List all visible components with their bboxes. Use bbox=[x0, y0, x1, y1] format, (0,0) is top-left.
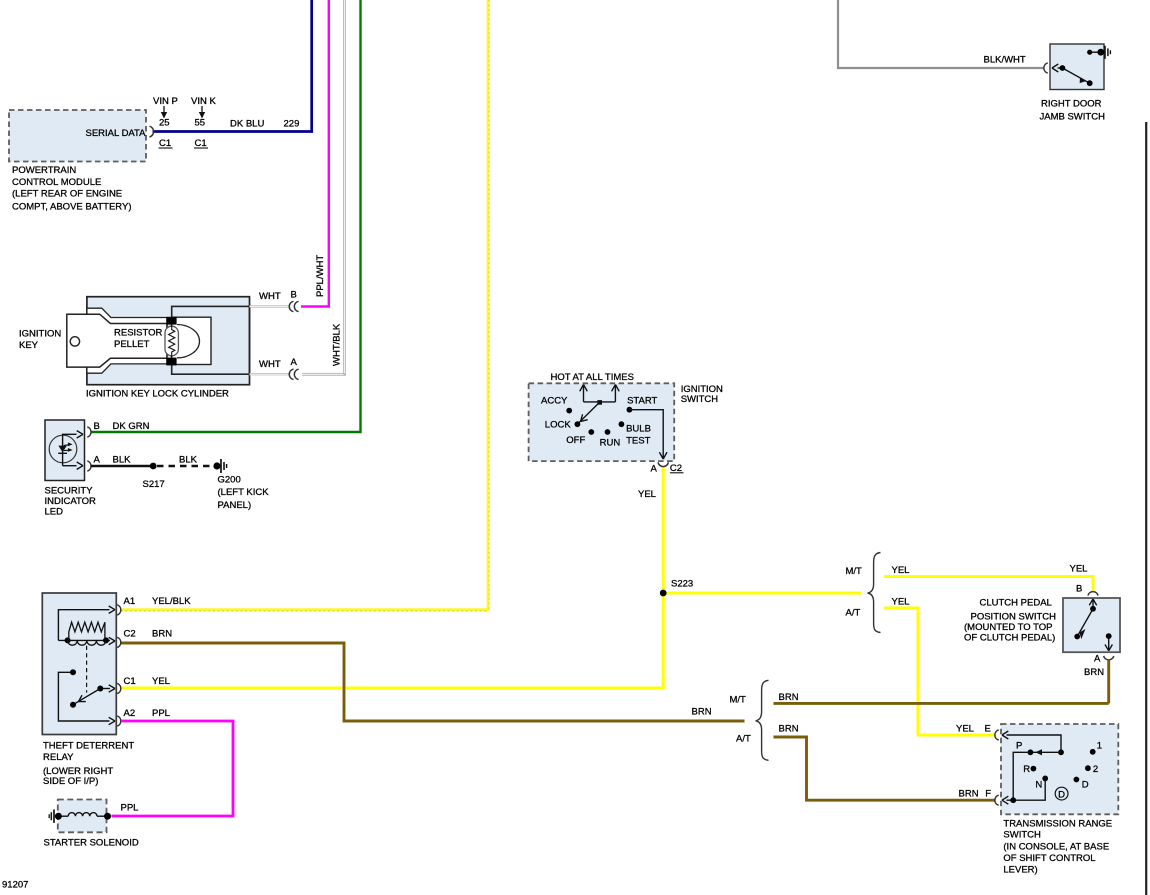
svg-text:N: N bbox=[1035, 779, 1042, 790]
label A/T yel bbox=[846, 608, 861, 619]
label YEL clutch bbox=[1070, 564, 1088, 575]
label PPL solenoid bbox=[121, 803, 139, 814]
wire BRN M/T clutch branch bbox=[774, 702, 1109, 705]
connector clutch B bbox=[1088, 592, 1098, 596]
label G200 bbox=[218, 475, 270, 512]
wire BRN A/T to trans F bbox=[774, 737, 996, 800]
label DK GRN bbox=[113, 421, 150, 432]
contact ACCY bbox=[541, 395, 572, 413]
svg-text:PANEL): PANEL) bbox=[218, 500, 252, 511]
label PPL/WHT rotated bbox=[315, 255, 326, 297]
label BRN m/t branch bbox=[779, 692, 799, 703]
ignition switch box bbox=[529, 383, 675, 461]
svg-text:BRN: BRN bbox=[152, 629, 172, 640]
pin 25 bbox=[159, 118, 170, 129]
svg-text:RIGHT DOOR: RIGHT DOOR bbox=[1041, 99, 1102, 110]
connector relay A1 bbox=[117, 605, 121, 615]
label HOT AT ALL TIMES bbox=[551, 372, 634, 383]
connector security B bbox=[87, 427, 91, 437]
label BRN at brace bbox=[692, 707, 712, 718]
svg-text:A: A bbox=[1094, 654, 1101, 665]
connector (( upper bbox=[289, 301, 298, 311]
connector relay C2 bbox=[117, 637, 121, 647]
contact 1 bbox=[1090, 740, 1102, 754]
relay C1 contact line bbox=[97, 685, 115, 692]
svg-text:(LEFT KICK: (LEFT KICK bbox=[218, 487, 270, 498]
svg-text:YEL: YEL bbox=[892, 565, 910, 576]
solenoid coil bbox=[55, 813, 111, 820]
relay A1 internal line bbox=[58, 606, 115, 640]
label BRN trans F bbox=[959, 789, 979, 800]
label YEL/BLK bbox=[152, 596, 191, 607]
svg-text:E: E bbox=[985, 724, 991, 735]
connector trans F bbox=[995, 795, 999, 805]
pin B clutch bbox=[1076, 584, 1082, 595]
label PPL relay bbox=[152, 708, 170, 719]
wire BRN relay C2 to brace bbox=[121, 643, 745, 721]
page number 91207 bbox=[2, 880, 28, 891]
contact BULB TEST bbox=[619, 421, 651, 446]
svg-text:2: 2 bbox=[1093, 764, 1098, 775]
LED circle bbox=[49, 435, 77, 463]
label SERIAL DATA bbox=[85, 128, 146, 139]
ground starter solenoid bbox=[49, 810, 54, 823]
wire YEL/BLK relay A1 bbox=[121, 0, 489, 611]
svg-text:A: A bbox=[291, 357, 298, 368]
pin E bbox=[985, 724, 991, 735]
wire PPL/WHT bbox=[301, 0, 329, 307]
contact D circled bbox=[1055, 787, 1068, 800]
svg-text:C1: C1 bbox=[124, 676, 136, 687]
connector C1 left bbox=[159, 138, 173, 149]
feed arrows to hot bbox=[580, 385, 620, 405]
svg-text:POSITION SWITCH: POSITION SWITCH bbox=[971, 612, 1057, 623]
caption starter solenoid bbox=[44, 838, 139, 849]
wire BRN clutch to M/T brace (vertical) bbox=[1107, 660, 1110, 704]
wire PPL A2 to solenoid bbox=[112, 721, 234, 816]
label BLK/WHT bbox=[984, 55, 1026, 66]
svg-text:91207: 91207 bbox=[2, 880, 28, 891]
ignition key lock cylinder housing bbox=[87, 297, 250, 385]
pin 55 bbox=[195, 118, 206, 129]
contact N bbox=[1035, 776, 1048, 791]
label YEL trans E bbox=[956, 724, 974, 735]
svg-text:BRN: BRN bbox=[779, 692, 799, 703]
svg-text:SWITCH: SWITCH bbox=[681, 394, 719, 405]
contact lower bbox=[166, 358, 176, 366]
label YEL relay bbox=[152, 676, 170, 687]
svg-text:CLUTCH PEDAL: CLUTCH PEDAL bbox=[980, 598, 1052, 609]
svg-text:YEL: YEL bbox=[1070, 564, 1088, 575]
svg-text:YEL: YEL bbox=[956, 724, 974, 735]
wire WHT lower bbox=[250, 373, 291, 375]
pin A clutch bbox=[1094, 654, 1101, 665]
svg-text:RELAY: RELAY bbox=[43, 752, 74, 763]
contact D bbox=[1074, 777, 1089, 791]
right door jamb switch box bbox=[1050, 44, 1104, 90]
ignition key bbox=[67, 314, 167, 367]
svg-text:A: A bbox=[94, 455, 101, 466]
connector security A bbox=[87, 461, 91, 471]
connector relay A2 bbox=[117, 716, 121, 726]
svg-text:OFF: OFF bbox=[566, 435, 585, 446]
bulb arc bbox=[177, 325, 200, 358]
theft deterrent relay box bbox=[42, 593, 116, 735]
pin A bbox=[94, 455, 101, 466]
pin A label bbox=[651, 464, 658, 475]
svg-text:KEY: KEY bbox=[19, 340, 39, 351]
svg-text:YEL/BLK: YEL/BLK bbox=[152, 596, 191, 607]
connector clutch A bbox=[1104, 656, 1114, 660]
label WHT/BLK rotated bbox=[331, 323, 342, 366]
LED internal wiring bbox=[63, 431, 83, 470]
security indicator LED box bbox=[45, 420, 85, 481]
svg-text:DK BLU: DK BLU bbox=[230, 119, 264, 130]
trans E internal line bbox=[1002, 731, 1064, 755]
svg-text:BLK/WHT: BLK/WHT bbox=[984, 55, 1026, 66]
pin B lock cylinder bbox=[291, 290, 297, 301]
svg-text:COMPT, ABOVE BATTERY): COMPT, ABOVE BATTERY) bbox=[12, 202, 131, 213]
wire YEL ignition to S223 bbox=[662, 468, 665, 594]
svg-text:S223: S223 bbox=[671, 579, 693, 590]
splice S217 bbox=[150, 463, 157, 470]
svg-text:CONTROL MODULE: CONTROL MODULE bbox=[12, 177, 101, 188]
connector trans E bbox=[995, 730, 999, 740]
label DK BLU bbox=[230, 119, 264, 130]
svg-text:(IN CONSOLE, AT BASE: (IN CONSOLE, AT BASE bbox=[1003, 842, 1109, 853]
splice S223 bbox=[660, 579, 693, 597]
connector C2 cup bbox=[658, 462, 668, 466]
svg-text:STARTER SOLENOID: STARTER SOLENOID bbox=[44, 838, 139, 849]
svg-text:HOT AT ALL TIMES: HOT AT ALL TIMES bbox=[551, 372, 634, 383]
svg-text:INDICATOR: INDICATOR bbox=[45, 496, 97, 507]
pellet chamber bbox=[172, 317, 211, 364]
door jamb internals bbox=[1052, 46, 1110, 86]
svg-text:R: R bbox=[1023, 764, 1030, 775]
svg-text:WHT/BLK: WHT/BLK bbox=[331, 323, 342, 366]
contact START bbox=[627, 395, 658, 412]
start feed line to C2 bbox=[629, 410, 667, 459]
svg-text:PELLET: PELLET bbox=[114, 339, 150, 350]
page right border bbox=[1145, 122, 1147, 895]
svg-text:S217: S217 bbox=[143, 479, 165, 490]
transmission range switch box bbox=[1001, 724, 1118, 814]
svg-text:A: A bbox=[651, 464, 658, 475]
wire WHT/BLK bbox=[302, 0, 345, 374]
svg-text:C1: C1 bbox=[159, 138, 171, 149]
svg-text:55: 55 bbox=[195, 118, 206, 129]
svg-text:RESISTOR: RESISTOR bbox=[114, 328, 163, 339]
label M/T brn bbox=[730, 695, 747, 706]
svg-text:BLK: BLK bbox=[113, 455, 132, 466]
svg-text:BULB: BULB bbox=[626, 424, 651, 435]
LED diode symbol bbox=[58, 442, 72, 453]
label WHT upper bbox=[259, 291, 281, 302]
svg-text:D: D bbox=[1058, 789, 1065, 800]
svg-text:C1: C1 bbox=[195, 138, 207, 149]
relay armature bbox=[70, 689, 100, 708]
svg-text:YEL: YEL bbox=[638, 489, 656, 500]
wire BLK to S217 bbox=[91, 465, 152, 467]
svg-text:PPL: PPL bbox=[152, 708, 170, 719]
svg-text:RUN: RUN bbox=[600, 437, 621, 448]
svg-text:D: D bbox=[1082, 779, 1089, 790]
svg-text:1: 1 bbox=[1097, 740, 1102, 751]
caption transmission range switch bbox=[1003, 818, 1112, 875]
svg-text:PPL/WHT: PPL/WHT bbox=[315, 255, 326, 297]
pin C2 label bbox=[670, 463, 684, 474]
label resistor pellet bbox=[114, 328, 163, 351]
connector (( lower bbox=[289, 369, 298, 379]
powertrain control module box bbox=[9, 110, 146, 162]
contact LOCK bbox=[545, 419, 581, 430]
label 229 bbox=[284, 119, 300, 130]
label ignition key bbox=[19, 329, 61, 352]
svg-text:B: B bbox=[291, 290, 297, 301]
wire BLK/WHT door jamb bbox=[838, 0, 1045, 68]
label WHT lower bbox=[259, 359, 281, 370]
svg-text:B: B bbox=[94, 421, 100, 432]
svg-text:M/T: M/T bbox=[846, 566, 863, 577]
pin C1 bbox=[124, 676, 136, 687]
svg-text:YEL: YEL bbox=[152, 676, 170, 687]
svg-text:SERIAL DATA: SERIAL DATA bbox=[85, 128, 146, 139]
svg-text:M/T: M/T bbox=[730, 695, 747, 706]
caption security indicator led bbox=[45, 486, 97, 518]
label VIN K bbox=[191, 96, 216, 119]
svg-text:A/T: A/T bbox=[736, 734, 751, 745]
svg-text:OF CLUTCH PEDAL): OF CLUTCH PEDAL) bbox=[964, 632, 1055, 643]
starter solenoid box bbox=[58, 800, 107, 833]
contact upper bbox=[166, 317, 176, 325]
pin A2 bbox=[124, 708, 136, 719]
label BLK 1 bbox=[113, 455, 132, 466]
rotor arm to LOCK bbox=[578, 402, 600, 424]
label VIN P bbox=[153, 96, 178, 119]
brace brown M/T A/T bbox=[756, 680, 769, 760]
wire YEL S223 to brace bbox=[663, 592, 861, 595]
label BRN a/t branch bbox=[779, 724, 799, 735]
contact 2 bbox=[1085, 764, 1098, 775]
svg-text:LEVER): LEVER) bbox=[1003, 865, 1037, 876]
svg-text:ACCY: ACCY bbox=[541, 395, 568, 406]
svg-text:YEL: YEL bbox=[892, 597, 910, 608]
svg-text:A1: A1 bbox=[124, 596, 136, 607]
relay coil bbox=[68, 640, 106, 645]
relay coil node line bbox=[58, 637, 115, 644]
svg-text:25: 25 bbox=[159, 118, 170, 129]
contact R bbox=[1023, 764, 1036, 775]
svg-text:OF SHIFT CONTROL: OF SHIFT CONTROL bbox=[1003, 853, 1095, 864]
label YEL m/t branch bbox=[892, 565, 910, 576]
wire DK GRN bbox=[91, 0, 361, 432]
label BLK 2 bbox=[179, 455, 198, 466]
wire YEL S223 to relay C1 bbox=[121, 593, 663, 688]
contact OFF bbox=[566, 429, 594, 446]
svg-text:229: 229 bbox=[284, 119, 300, 130]
pin A1 bbox=[124, 596, 136, 607]
label S217 bbox=[143, 479, 165, 490]
wire YEL A/T to trans E bbox=[884, 608, 996, 735]
label YEL a/t branch bbox=[892, 597, 910, 608]
svg-text:BRN: BRN bbox=[959, 789, 979, 800]
label BRN clutch bbox=[1084, 667, 1104, 678]
svg-text:PPL: PPL bbox=[121, 803, 139, 814]
svg-text:START: START bbox=[627, 395, 657, 406]
svg-text:SWITCH: SWITCH bbox=[1003, 830, 1041, 841]
trans P to F line bbox=[1013, 752, 1030, 800]
wire WHT upper bbox=[250, 305, 291, 307]
svg-text:F: F bbox=[985, 789, 991, 800]
caption ignition key lock cylinder bbox=[86, 389, 229, 400]
key slot opening bbox=[87, 308, 167, 373]
svg-text:LED: LED bbox=[45, 507, 64, 518]
clutch pedal position switch box bbox=[1063, 598, 1120, 652]
resistor pellet bbox=[165, 325, 178, 357]
caption powertrain control module bbox=[12, 165, 131, 213]
svg-text:LOCK: LOCK bbox=[545, 419, 572, 430]
label A/T brn bbox=[736, 734, 751, 745]
svg-text:DK GRN: DK GRN bbox=[113, 421, 150, 432]
label ignition switch bbox=[681, 384, 723, 405]
svg-text:WHT: WHT bbox=[259, 359, 281, 370]
svg-text:P: P bbox=[1016, 740, 1022, 751]
pin B bbox=[94, 421, 100, 432]
svg-text:SECURITY: SECURITY bbox=[45, 486, 94, 497]
svg-text:BRN: BRN bbox=[692, 707, 712, 718]
brace yellow M/T A/T bbox=[868, 553, 881, 633]
caption right door jamb switch bbox=[1040, 99, 1106, 123]
pin A lock cylinder bbox=[291, 357, 298, 368]
svg-text:BRN: BRN bbox=[779, 724, 799, 735]
relay resistor bbox=[69, 622, 105, 640]
clutch switch internals bbox=[1074, 599, 1112, 651]
svg-text:IGNITION: IGNITION bbox=[19, 329, 61, 340]
label YEL bbox=[638, 489, 656, 500]
svg-text:BRN: BRN bbox=[1084, 667, 1104, 678]
wire YEL M/T to clutch bbox=[884, 577, 1093, 592]
pin F bbox=[985, 789, 991, 800]
label M/T yel bbox=[846, 566, 863, 577]
svg-text:SIDE OF I/P): SIDE OF I/P) bbox=[43, 776, 98, 787]
pin C2 bbox=[124, 629, 136, 640]
caption theft deterrent relay bbox=[43, 741, 134, 788]
wire DK BLU 229 serial data bbox=[153, 0, 312, 132]
connector C1 right bbox=[194, 138, 208, 149]
svg-text:TRANSMISSION RANGE: TRANSMISSION RANGE bbox=[1003, 818, 1112, 829]
caption clutch pedal position switch bbox=[964, 598, 1056, 644]
label BRN relay bbox=[152, 629, 172, 640]
connector door jamb bbox=[1044, 63, 1048, 73]
svg-text:BLK: BLK bbox=[179, 455, 198, 466]
contact P bbox=[1016, 740, 1033, 755]
svg-text:C2: C2 bbox=[124, 629, 136, 640]
svg-text:G200: G200 bbox=[218, 475, 241, 486]
relay actuator dashed bbox=[86, 646, 88, 693]
svg-text:THEFT DETERRENT: THEFT DETERRENT bbox=[43, 741, 134, 752]
svg-text:VIN K: VIN K bbox=[191, 96, 216, 107]
connector PCM serial data bbox=[150, 126, 154, 137]
relay fixed contact and A2 line bbox=[58, 669, 115, 724]
trans N to F line bbox=[1002, 778, 1045, 804]
svg-text:VIN P: VIN P bbox=[153, 96, 178, 107]
connector relay C1 bbox=[117, 683, 121, 693]
wire BLK dashed to G200 bbox=[157, 465, 213, 467]
svg-text:POWERTRAIN: POWERTRAIN bbox=[12, 165, 76, 176]
svg-text:WHT: WHT bbox=[259, 291, 281, 302]
svg-text:IGNITION KEY LOCK CYLINDER: IGNITION KEY LOCK CYLINDER bbox=[86, 389, 229, 400]
svg-text:B: B bbox=[1076, 584, 1082, 595]
svg-text:(LEFT REAR OF ENGINE: (LEFT REAR OF ENGINE bbox=[12, 189, 122, 200]
ground G200 bbox=[213, 459, 226, 473]
svg-text:A2: A2 bbox=[124, 708, 136, 719]
svg-text:A/T: A/T bbox=[846, 608, 861, 619]
svg-text:TEST: TEST bbox=[626, 436, 650, 447]
svg-text:JAMB SWITCH: JAMB SWITCH bbox=[1040, 112, 1106, 123]
cylinder core rect bbox=[172, 306, 250, 374]
contact RUN bbox=[600, 429, 621, 448]
